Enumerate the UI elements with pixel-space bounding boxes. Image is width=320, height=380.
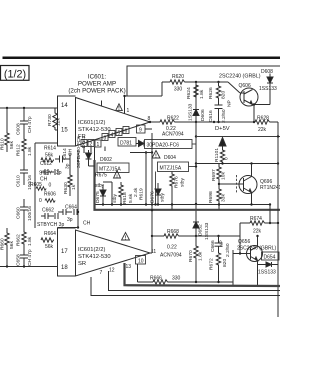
resistor R622 — [160, 120, 175, 124]
svg-text:D675: D675 — [95, 191, 101, 203]
svg-text:C660: C660 — [16, 207, 22, 219]
svg-text:0: 0 — [49, 183, 52, 189]
D+5V arrow — [219, 138, 226, 164]
ground bus thick ch1 — [95, 160, 281, 210]
svg-text:NP: NP — [219, 240, 225, 247]
svg-text:R624: R624 — [186, 87, 192, 99]
svg-text:1SS133: 1SS133 — [258, 270, 276, 276]
svg-text:D608: D608 — [261, 69, 273, 75]
svg-text:C610: C610 — [16, 175, 22, 187]
svg-text:1.8k: 1.8k — [27, 146, 33, 156]
svg-text:D781: D781 — [81, 136, 87, 148]
resistor R630 — [68, 153, 72, 196]
svg-text:IC601(1/2): IC601(1/2) — [78, 120, 105, 126]
svg-text:IC601(2/2): IC601(2/2) — [78, 247, 105, 253]
svg-text:C612: C612 — [40, 161, 52, 167]
net line x146 — [145, 151, 147, 204]
svg-text:IC601:: IC601: — [88, 74, 107, 81]
capacitor C658 — [20, 250, 28, 267]
resistor R698 — [217, 186, 221, 210]
svg-text:5.6k: 5.6k — [128, 193, 134, 203]
svg-text:RT1N241M: RT1N241M — [260, 185, 280, 191]
svg-text:R612: R612 — [16, 144, 22, 156]
resistor R697 — [217, 164, 241, 187]
svg-text:R606: R606 — [44, 192, 56, 198]
resistor R624 — [194, 84, 198, 98]
svg-text:stby: stby — [160, 192, 166, 202]
svg-text:R697: R697 — [211, 169, 217, 181]
svg-text:R730: R730 — [47, 114, 53, 126]
svg-text:R666: R666 — [150, 276, 162, 282]
wire R666 — [138, 280, 234, 286]
svg-text:STK412-530: STK412-530 — [78, 127, 111, 133]
left network R610 — [5, 108, 9, 152]
resistor R626 — [216, 82, 220, 105]
capacitor C616 — [215, 105, 223, 122]
svg-text:C662: C662 — [42, 208, 54, 214]
stby rail thin — [95, 203, 272, 205]
svg-text:CH: CH — [83, 221, 91, 227]
svg-text:5: 5 — [118, 131, 121, 137]
capacitor C608 — [20, 108, 28, 138]
svg-text:3: 3 — [104, 136, 107, 142]
svg-text:NP: NP — [227, 100, 233, 107]
svg-text:12k: 12k — [56, 118, 62, 126]
net line V1 — [195, 82, 197, 237]
svg-text:18: 18 — [61, 265, 68, 271]
wire input top — [0, 107, 58, 109]
svg-text:100/16: 100/16 — [27, 206, 33, 221]
output rail ch1 — [149, 120, 255, 124]
svg-text:9: 9 — [139, 128, 142, 134]
svg-text:0: 0 — [39, 198, 42, 204]
diode D675 — [100, 182, 112, 205]
svg-text:D602: D602 — [100, 157, 112, 163]
diode D781 vertical — [86, 147, 95, 166]
svg-text:1SS133: 1SS133 — [204, 222, 210, 240]
pin boxes T1 bottom — [81, 125, 145, 147]
op-amp IC601(2/2) triangle — [76, 230, 151, 276]
svg-text:R675: R675 — [95, 173, 107, 179]
svg-text:CH 47p: CH 47p — [27, 116, 33, 133]
svg-text:2.2/50: 2.2/50 — [225, 243, 231, 257]
svg-text:8: 8 — [148, 116, 151, 122]
svg-text:D652: D652 — [198, 224, 204, 236]
wire input bottom — [0, 265, 58, 267]
svg-text:R620: R620 — [172, 74, 184, 80]
resistor R662 — [22, 222, 26, 250]
svg-text:R1101: R1101 — [214, 148, 220, 162]
diode D654 symbol — [266, 262, 278, 267]
transistor Q606 — [228, 82, 270, 122]
svg-text:7: 7 — [100, 270, 103, 276]
svg-text:13: 13 — [126, 264, 132, 270]
svg-text:1.8k: 1.8k — [198, 251, 204, 261]
svg-text:R619: R619 — [139, 188, 145, 200]
resistor R730 — [53, 108, 58, 130]
svg-text:R628: R628 — [257, 116, 269, 122]
svg-text:30PDA20-FC6: 30PDA20-FC6 — [147, 143, 180, 149]
svg-text:stby: stby — [180, 177, 186, 187]
svg-text:(1/2): (1/2) — [4, 69, 26, 81]
svg-text:3p: 3p — [56, 170, 62, 176]
pin stubs T1 — [84, 147, 105, 154]
svg-text:2SC2240 (GRBL): 2SC2240 (GRBL) — [219, 74, 261, 80]
svg-text:D676: D676 — [150, 191, 156, 203]
resistor R670 — [194, 236, 198, 282]
svg-text:56k: 56k — [45, 244, 54, 250]
warning triangle T1 — [116, 104, 123, 111]
svg-text:0: 0 — [224, 157, 230, 160]
node dot — [6, 107, 8, 109]
svg-text:R618: R618 — [122, 192, 128, 204]
bottom rail thin — [91, 264, 280, 296]
warning triangle T2 — [122, 233, 130, 241]
svg-text:D781: D781 — [120, 141, 132, 147]
svg-text:R664: R664 — [44, 231, 56, 237]
resistor R1101 — [220, 149, 224, 163]
svg-text:22k: 22k — [258, 127, 267, 133]
resistor R666 — [153, 280, 168, 284]
svg-text:R614: R614 — [44, 146, 56, 152]
svg-text:33k: 33k — [221, 194, 227, 202]
svg-text:R610: R610 — [0, 138, 6, 150]
svg-text:R698: R698 — [208, 191, 214, 203]
svg-text:SR: SR — [78, 261, 86, 267]
right feedback line V2 — [277, 122, 279, 317]
diode D676 — [155, 183, 161, 206]
svg-text:1.8k: 1.8k — [27, 236, 33, 246]
svg-text:ACN7094: ACN7094 — [162, 132, 184, 138]
capacitor C666 + resistor R672 stack — [215, 236, 234, 282]
D+5V rail — [196, 136, 280, 138]
svg-text:R672: R672 — [209, 258, 215, 270]
IC601 package 2 left edge — [58, 228, 79, 277]
svg-text:4: 4 — [111, 133, 114, 139]
svg-text:C666: C666 — [210, 240, 216, 252]
svg-text:Q606: Q606 — [239, 83, 251, 89]
svg-text:330: 330 — [172, 276, 181, 282]
svg-text:R622: R622 — [167, 116, 179, 122]
diode D781 box — [118, 138, 136, 147]
pin 16 stub — [101, 101, 103, 107]
svg-text:C608: C608 — [16, 123, 22, 135]
resistor R620 — [162, 80, 228, 96]
resistor R668 — [164, 234, 179, 238]
page label (1/2) box — [1, 66, 30, 81]
svg-text:R630: R630 — [63, 182, 69, 194]
svg-text:R676: R676 — [174, 176, 180, 188]
svg-text:POWER AMP: POWER AMP — [78, 81, 116, 88]
svg-text:1k: 1k — [71, 184, 77, 190]
resistor R612 — [22, 138, 26, 162]
diode D652 — [193, 222, 199, 228]
svg-text:D604: D604 — [164, 155, 176, 161]
svg-text:3p: 3p — [67, 217, 73, 223]
svg-text:820: 820 — [222, 259, 228, 267]
svg-text:(2ch POWER PACK): (2ch POWER PACK) — [68, 88, 125, 95]
svg-text:R662: R662 — [16, 234, 22, 246]
mid rail — [196, 162, 278, 164]
pin 1 net — [123, 95, 162, 114]
header bar — [3, 57, 281, 60]
IC601 package left edge — [58, 96, 76, 146]
svg-text:STK412-530: STK412-530 — [78, 254, 111, 260]
svg-text:1SS133: 1SS133 — [259, 86, 277, 92]
warning triangle D602 — [114, 171, 121, 179]
resistor R674 — [239, 205, 278, 255]
capacitor C660 — [20, 199, 28, 222]
svg-text:R660: R660 — [0, 238, 6, 250]
svg-text:C664: C664 — [65, 205, 77, 211]
svg-text:0.22: 0.22 — [167, 245, 177, 251]
bottom bus thick ch2 — [125, 263, 281, 286]
resistor R628 — [255, 120, 278, 124]
svg-text:CH 47p: CH 47p — [27, 249, 33, 266]
svg-text:1: 1 — [127, 108, 130, 114]
transistor Q656 — [233, 235, 266, 286]
svg-text:D654: D654 — [264, 255, 276, 261]
svg-text:2.2/50: 2.2/50 — [221, 109, 227, 123]
wire mid — [130, 152, 152, 154]
svg-text:10: 10 — [138, 259, 144, 265]
svg-text:ACN7094: ACN7094 — [160, 253, 182, 259]
resistor R660 — [5, 228, 9, 267]
svg-text:1.8k: 1.8k — [199, 89, 205, 99]
diode D608 — [267, 74, 273, 105]
svg-text:15: 15 — [61, 128, 68, 134]
svg-text:3p: 3p — [65, 163, 71, 169]
svg-text:R626: R626 — [208, 87, 214, 99]
svg-text:R670: R670 — [188, 250, 194, 262]
node dot — [23, 107, 25, 109]
diode D654 box — [262, 252, 280, 260]
net line x152 — [145, 129, 153, 253]
svg-text:MTZJ15A: MTZJ15A — [160, 166, 182, 172]
warning triangle D604 — [152, 151, 160, 159]
svg-text:2SC2240 (GBRL): 2SC2240 (GBRL) — [237, 246, 277, 252]
sub-board border — [127, 66, 280, 96]
30PDA20-FC6 box — [145, 140, 197, 149]
svg-text:C658: C658 — [16, 254, 22, 266]
svg-text:1SS133: 1SS133 — [188, 103, 194, 121]
resistor R676 — [170, 172, 174, 210]
svg-text:820: 820 — [221, 91, 227, 99]
svg-text:R674: R674 — [250, 216, 262, 222]
svg-text:56k: 56k — [9, 241, 15, 249]
svg-text:D+5V: D+5V — [215, 126, 230, 132]
svg-text:10k: 10k — [221, 172, 227, 180]
svg-text:56k: 56k — [9, 141, 15, 149]
svg-text:17: 17 — [61, 249, 68, 255]
svg-text:330: 330 — [174, 87, 183, 93]
svg-text:R668: R668 — [167, 229, 179, 235]
svg-text:14: 14 — [61, 103, 68, 109]
capacitor C610 — [20, 162, 28, 185]
svg-text:22k: 22k — [253, 229, 262, 235]
svg-text:6: 6 — [125, 129, 128, 135]
output rail ch2 — [150, 234, 240, 253]
svg-text:stby: stby — [112, 193, 118, 203]
D604 box MTZJ15A — [154, 162, 197, 206]
resistor R618 — [119, 182, 123, 205]
svg-text:C616: C616 — [208, 110, 214, 122]
svg-text:D606: D606 — [200, 109, 206, 121]
svg-text:12: 12 — [109, 268, 115, 274]
transistor Q696 — [239, 164, 257, 205]
diode D606 — [193, 110, 199, 116]
svg-text:CH: CH — [68, 148, 74, 156]
svg-text:1: 1 — [97, 142, 100, 148]
diode D781 symbol — [136, 141, 144, 147]
op-amp IC601(1/2) triangle — [76, 98, 151, 147]
